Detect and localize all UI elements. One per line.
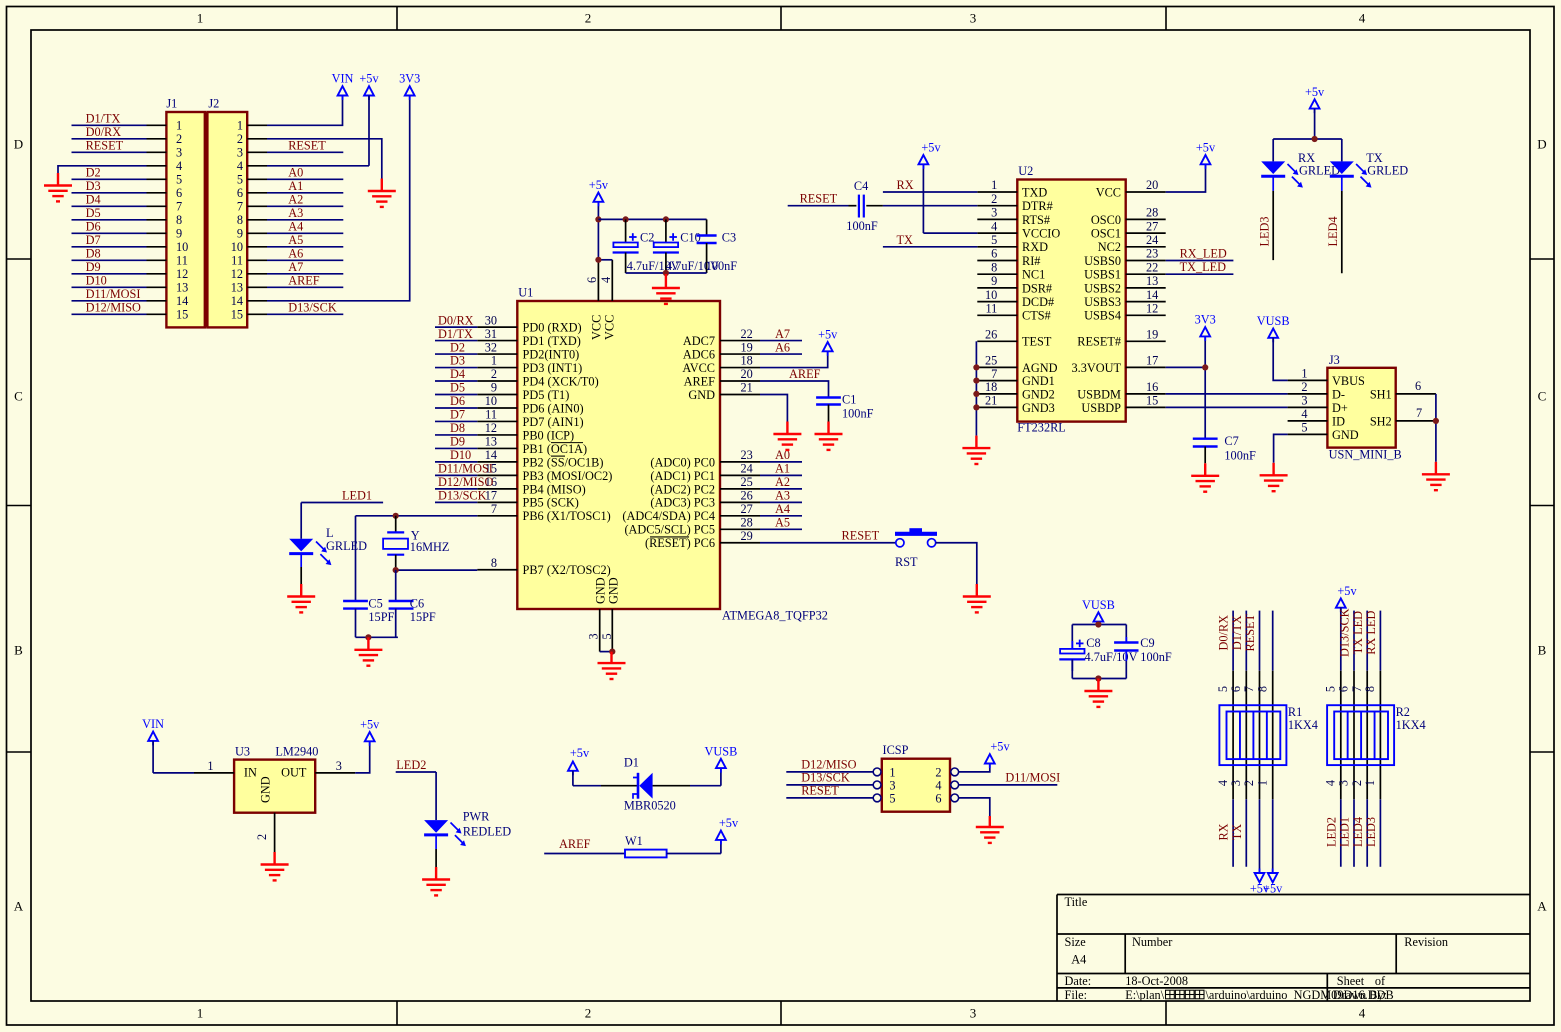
power port +5v (AVCC) xyxy=(827,351,829,356)
svg-text:9: 9 xyxy=(176,227,182,241)
svg-text:31: 31 xyxy=(485,327,497,341)
svg-text:3: 3 xyxy=(587,633,601,639)
wire J2 pin 12 net A7 xyxy=(247,273,267,275)
svg-text:2: 2 xyxy=(585,11,592,26)
wire U1 gnd join xyxy=(600,651,613,653)
wire J1 pin 5 net D2 xyxy=(147,178,167,180)
wire +5v to VCCIO xyxy=(922,164,924,233)
R2 wire pin 8 xyxy=(1363,611,1380,867)
capacitor C3 100nF xyxy=(697,219,738,273)
LED L GRLED (LED1) xyxy=(289,526,367,584)
svg-text:6: 6 xyxy=(585,277,599,283)
svg-text:3: 3 xyxy=(970,1006,977,1021)
wire J2 pin 7 net A2 xyxy=(247,205,267,207)
connector ICSP body xyxy=(882,759,950,812)
svg-text:+5v: +5v xyxy=(1196,141,1216,155)
wire USBDP to J3 xyxy=(1166,406,1288,408)
svg-text:(ADC5/SCL) PC5: (ADC5/SCL) PC5 xyxy=(624,523,715,537)
ICSP pins 5/6 xyxy=(873,791,958,805)
svg-text:J3: J3 xyxy=(1329,353,1340,367)
svg-text:+5v: +5v xyxy=(589,178,609,192)
title block texts xyxy=(1065,895,1449,1002)
svg-text:D5: D5 xyxy=(86,206,101,220)
svg-text:+5v: +5v xyxy=(818,328,838,342)
svg-text:OSC0: OSC0 xyxy=(1091,213,1121,227)
svg-text:22: 22 xyxy=(1146,260,1158,274)
wire J2 pin 4 xyxy=(247,165,267,167)
ICSP pins 1/2 xyxy=(873,765,958,779)
power port VIN xyxy=(342,96,344,101)
power port +5v (ICSP) xyxy=(989,764,991,769)
svg-text:A4: A4 xyxy=(775,502,790,516)
power port +5v above R2 xyxy=(1340,608,1342,613)
svg-text:J1: J1 xyxy=(166,97,177,111)
svg-text:3: 3 xyxy=(176,146,182,160)
U1 pin 7 PB6 (X1/TOSC1) xyxy=(477,502,610,523)
svg-text:GND3: GND3 xyxy=(1022,401,1055,415)
svg-text:13: 13 xyxy=(231,281,243,295)
wire +5v led rail xyxy=(1273,109,1342,139)
svg-text:100nF: 100nF xyxy=(842,406,874,420)
svg-text:OSC1: OSC1 xyxy=(1091,227,1121,241)
wire U2 ground bus xyxy=(975,341,977,435)
ground at U2 bus xyxy=(962,436,990,464)
U1 pin 25 (ADC2) PC2 xyxy=(650,475,802,496)
svg-text:RX_LED: RX_LED xyxy=(1180,247,1227,261)
U1 pin 14 PB2 (SS/OC1B) xyxy=(435,448,603,469)
J3 pin 5 GND xyxy=(1288,421,1359,442)
U2 pin 15 USBDP xyxy=(1081,394,1165,415)
power port +5v (U2) xyxy=(1205,164,1207,169)
svg-text:30: 30 xyxy=(485,313,497,327)
U2 pin 1 TXD xyxy=(977,178,1047,199)
svg-text:17: 17 xyxy=(1146,354,1158,368)
svg-text:USBS3: USBS3 xyxy=(1084,295,1121,309)
wire J2 pin 5 net A0 xyxy=(247,178,267,180)
svg-text:+5v: +5v xyxy=(990,740,1010,754)
svg-text:RX: RX xyxy=(1217,823,1231,840)
wire VUSB cap rail xyxy=(1072,622,1126,649)
svg-text:Number: Number xyxy=(1132,935,1172,949)
svg-text:7: 7 xyxy=(176,200,182,214)
U2 pin 13 USBS2 xyxy=(1084,274,1166,295)
svg-text:ATMEGA8_TQFP32: ATMEGA8_TQFP32 xyxy=(722,609,828,623)
svg-text:4: 4 xyxy=(1216,780,1230,786)
svg-text:VIN: VIN xyxy=(332,72,354,86)
wire J1 pin 11 net D8 xyxy=(147,259,167,261)
U1 pin 29 (RESET) PC6 xyxy=(645,529,760,550)
U2 pin 28 OSC0 xyxy=(1091,206,1166,227)
net label RX_LED xyxy=(1166,247,1234,261)
net label TX_LED xyxy=(1166,260,1234,274)
ground at RST xyxy=(963,584,991,612)
svg-text:2: 2 xyxy=(935,765,941,779)
svg-text:5: 5 xyxy=(1324,686,1338,692)
svg-text:LED1: LED1 xyxy=(342,488,372,502)
svg-text:4: 4 xyxy=(176,159,182,173)
U2 pin 24 NC2 xyxy=(1098,233,1166,254)
svg-text:AVCC: AVCC xyxy=(682,361,715,375)
svg-text:D6: D6 xyxy=(450,394,465,408)
U2 pin 10 DCD# xyxy=(977,288,1054,309)
svg-text:11: 11 xyxy=(176,254,188,268)
svg-text:C: C xyxy=(14,389,23,404)
svg-text:19: 19 xyxy=(1146,328,1158,342)
R1 wire pin 5 xyxy=(1216,611,1233,867)
svg-text:LED2: LED2 xyxy=(396,758,426,772)
wire J2 pin 9 net A4 xyxy=(247,232,267,234)
svg-text:15: 15 xyxy=(231,308,243,322)
svg-text:CTS#: CTS# xyxy=(1022,309,1051,323)
svg-text:7: 7 xyxy=(1350,686,1364,692)
wire ICSP pin6 to ground xyxy=(959,798,990,816)
svg-text:28: 28 xyxy=(741,516,753,530)
svg-text:D1/TX: D1/TX xyxy=(438,327,473,341)
svg-text:23: 23 xyxy=(741,448,753,462)
svg-text:REDLED: REDLED xyxy=(463,824,512,838)
ground below C8/C9 xyxy=(1084,679,1112,707)
svg-text:7: 7 xyxy=(1242,686,1256,692)
svg-text:USBS1: USBS1 xyxy=(1084,268,1121,282)
ground below LED2 xyxy=(422,867,450,895)
svg-text:9: 9 xyxy=(991,274,997,288)
svg-text:(ADC4/SDA) PC4: (ADC4/SDA) PC4 xyxy=(622,509,715,523)
svg-text:ADC7: ADC7 xyxy=(683,334,715,348)
svg-text:6: 6 xyxy=(935,791,941,805)
svg-text:25: 25 xyxy=(985,354,997,368)
svg-text:4: 4 xyxy=(1301,407,1307,421)
svg-text:MBR0520: MBR0520 xyxy=(624,799,676,813)
svg-text:LED1: LED1 xyxy=(1338,817,1352,847)
svg-text:A5: A5 xyxy=(288,233,303,247)
svg-text:8: 8 xyxy=(491,556,497,570)
svg-text:D12/MISO: D12/MISO xyxy=(801,758,856,772)
svg-text:DTR#: DTR# xyxy=(1022,199,1053,213)
ground at J3 GND xyxy=(1260,463,1288,491)
svg-text:U3: U3 xyxy=(235,744,250,758)
svg-text:GND: GND xyxy=(594,577,608,604)
resistor network R1 1KX4 body xyxy=(1219,705,1318,765)
power port 3V3 (U2) xyxy=(1204,336,1206,341)
svg-text:1: 1 xyxy=(1363,780,1377,786)
svg-text:10: 10 xyxy=(176,240,188,254)
svg-text:D10: D10 xyxy=(450,448,471,462)
power port +5v (U3) xyxy=(369,741,371,746)
svg-text:+5v: +5v xyxy=(570,746,590,760)
svg-text:D2: D2 xyxy=(86,166,101,180)
svg-text:USBS2: USBS2 xyxy=(1084,281,1121,295)
wire J1 pin 13 net D10 xyxy=(147,286,167,288)
svg-text:12: 12 xyxy=(1146,302,1158,316)
svg-text:Sheet: Sheet xyxy=(1337,974,1365,988)
svg-text:15PF: 15PF xyxy=(368,610,394,624)
svg-text:GND2: GND2 xyxy=(1022,387,1055,401)
wire C4 to U2 DTR# xyxy=(883,205,977,207)
wire J2 pin 13 net AREF xyxy=(247,286,267,288)
svg-text:3: 3 xyxy=(336,759,342,773)
svg-text:D0/RX: D0/RX xyxy=(438,313,474,327)
svg-text:13: 13 xyxy=(1146,274,1158,288)
wire J2 pin 3 net RESET xyxy=(247,151,267,153)
svg-text:D3: D3 xyxy=(86,179,101,193)
svg-text:10: 10 xyxy=(231,240,243,254)
U2 pin 6 RI# xyxy=(977,247,1040,268)
ground at ICSP xyxy=(976,816,1004,843)
svg-text:1: 1 xyxy=(207,759,213,773)
net label TX (U2) xyxy=(883,233,977,247)
U2 pin 16 USBDM xyxy=(1077,380,1165,401)
svg-text:4: 4 xyxy=(935,778,941,792)
wire J1 pin 15 net D12/MISO xyxy=(147,313,167,315)
svg-text:A7: A7 xyxy=(288,260,303,274)
svg-text:A1: A1 xyxy=(775,462,790,476)
wire J2 pin 15 net D13/SCK xyxy=(247,313,267,315)
svg-text:4: 4 xyxy=(1359,1006,1366,1021)
svg-text:GND: GND xyxy=(258,776,272,803)
svg-text:D13/SCK: D13/SCK xyxy=(1338,608,1352,657)
U1 pin 30 PD0 (RXD) xyxy=(435,313,582,334)
wire J1 pin 10 net D7 xyxy=(147,246,167,248)
svg-text:GRLED: GRLED xyxy=(326,539,367,553)
svg-text:A2: A2 xyxy=(288,193,303,207)
svg-text:23: 23 xyxy=(1146,247,1158,261)
svg-text:32: 32 xyxy=(485,340,497,354)
wire J2 pin 11 net A6 xyxy=(247,259,267,261)
LED4 TX GRLED xyxy=(1330,139,1409,273)
svg-text:RX: RX xyxy=(897,178,914,192)
svg-text:C4: C4 xyxy=(854,179,868,193)
svg-text:21: 21 xyxy=(741,381,753,395)
svg-text:D3: D3 xyxy=(450,354,465,368)
wire LED2 xyxy=(396,772,436,820)
svg-text:GRLED: GRLED xyxy=(1367,164,1408,178)
U2 pin 27 OSC1 xyxy=(1091,219,1166,240)
U1 pin 10 PD6 (AIN0) xyxy=(435,394,584,415)
svg-text:100nF: 100nF xyxy=(1224,449,1256,463)
wire ICSP RESET xyxy=(786,784,873,798)
svg-text:6: 6 xyxy=(1229,686,1243,692)
wire W1 to +5v xyxy=(667,840,721,854)
svg-text:A4: A4 xyxy=(288,220,303,234)
svg-text:5: 5 xyxy=(991,233,997,247)
U1 pin 19 ADC6 xyxy=(683,340,802,361)
svg-text:W1: W1 xyxy=(625,834,643,848)
ground at U3 xyxy=(261,852,289,880)
wire J1 pin4 to ground xyxy=(58,166,72,173)
svg-text:14: 14 xyxy=(176,294,188,308)
svg-text:AREF: AREF xyxy=(288,274,320,288)
svg-text:7: 7 xyxy=(1416,406,1422,420)
svg-text:11: 11 xyxy=(231,254,243,268)
svg-text:FT232RL: FT232RL xyxy=(1017,421,1066,435)
svg-text:RESET: RESET xyxy=(288,139,326,153)
svg-text:2: 2 xyxy=(1301,380,1307,394)
ground below C2/C10/C3 xyxy=(652,274,680,304)
wire ICSP D12/MISO xyxy=(786,758,873,772)
svg-text:1: 1 xyxy=(1255,780,1269,786)
capacitor C9 100nF xyxy=(1114,636,1172,679)
svg-text:USBDM: USBDM xyxy=(1077,387,1121,401)
wire VIN to U3 xyxy=(153,741,194,773)
svg-text:Size: Size xyxy=(1065,935,1087,949)
wire J1 pin 7 net D4 xyxy=(147,205,167,207)
svg-text:100nF: 100nF xyxy=(846,219,878,233)
svg-text:C8: C8 xyxy=(1086,636,1100,650)
svg-text:PB7 (X2/TOSC2): PB7 (X2/TOSC2) xyxy=(523,563,611,577)
svg-text:15PF: 15PF xyxy=(410,610,436,624)
wire J1 pin 4 xyxy=(147,165,167,167)
svg-text:ICSP: ICSP xyxy=(883,743,909,757)
svg-text:NC2: NC2 xyxy=(1098,240,1121,254)
U2 pin 4 VCCIO xyxy=(977,219,1060,240)
svg-text:B: B xyxy=(1538,643,1547,658)
svg-text:6: 6 xyxy=(176,186,182,200)
svg-text:AREF: AREF xyxy=(559,837,591,851)
svg-text:11: 11 xyxy=(485,408,497,422)
svg-text:+5v: +5v xyxy=(921,141,941,155)
U2 pin 8 NC1 xyxy=(977,260,1045,281)
power port VUSB (D1) xyxy=(720,768,722,773)
svg-text:D8: D8 xyxy=(450,421,465,435)
svg-text:C3: C3 xyxy=(722,230,736,244)
U2 pin 2 DTR# xyxy=(977,192,1052,213)
svg-text:RESET: RESET xyxy=(86,139,124,153)
svg-text:PD0 (RXD): PD0 (RXD) xyxy=(523,321,582,335)
LED3 RX GRLED xyxy=(1261,139,1340,260)
svg-text:1: 1 xyxy=(491,354,497,368)
svg-text:A0: A0 xyxy=(288,166,303,180)
svg-text:3V3: 3V3 xyxy=(1195,313,1216,327)
wire +5v to U1 VCC xyxy=(598,202,612,260)
svg-text:TXD: TXD xyxy=(1022,185,1047,199)
svg-text:A3: A3 xyxy=(288,206,303,220)
wire PB6 to crystal xyxy=(356,516,478,601)
wire J2 pin 8 net A3 xyxy=(247,219,267,221)
wire J2 pin 1 xyxy=(247,124,267,126)
connector J1 xyxy=(166,112,205,327)
U1 pin 18 AVCC xyxy=(682,354,760,375)
svg-text:C5: C5 xyxy=(368,596,382,610)
IC U1 ATMEGA8_TQFP32 body xyxy=(517,301,720,609)
svg-text:TX_LED: TX_LED xyxy=(1180,260,1227,274)
wire ICSP pin4 D11/MOSI xyxy=(959,771,1061,785)
svg-text:PB6 (X1/TOSC1): PB6 (X1/TOSC1) xyxy=(523,509,611,523)
svg-text:26: 26 xyxy=(985,328,997,342)
svg-text:+5v: +5v xyxy=(719,816,739,830)
svg-text:+5v: +5v xyxy=(1263,882,1283,896)
wire J1 pin 9 net D6 xyxy=(147,232,167,234)
svg-text:PB5 (SCK): PB5 (SCK) xyxy=(523,496,579,510)
svg-text:USBS0: USBS0 xyxy=(1084,254,1121,268)
svg-text:NC1: NC1 xyxy=(1022,268,1045,282)
svg-text:PD3 (INT1): PD3 (INT1) xyxy=(523,361,583,375)
svg-text:24: 24 xyxy=(1146,233,1158,247)
border row ticks xyxy=(7,259,1555,752)
svg-text:2: 2 xyxy=(255,834,269,840)
svg-text:12: 12 xyxy=(176,267,188,281)
connector J3 USN_MINI_B body xyxy=(1327,368,1395,448)
svg-text:Title: Title xyxy=(1065,895,1088,909)
wire J1 pin 14 net D11/MOSI xyxy=(147,300,167,302)
U1 pin 1 PD3 (INT1) xyxy=(435,354,582,375)
U2 pin 3 RTS# xyxy=(977,206,1050,227)
wire J1 pin 1 net D1/TX xyxy=(147,124,167,126)
svg-text:29: 29 xyxy=(741,529,753,543)
svg-text:VCCIO: VCCIO xyxy=(1022,227,1060,241)
svg-text:D1: D1 xyxy=(624,756,639,770)
U2 pin 14 USBS3 xyxy=(1084,288,1166,309)
svg-text:14: 14 xyxy=(1146,288,1158,302)
svg-text:(ADC2) PC2: (ADC2) PC2 xyxy=(650,482,715,496)
svg-text:D11/MOSI: D11/MOSI xyxy=(1005,771,1060,785)
net label RESET at C4 xyxy=(788,192,849,206)
U1 pin 2 PD4 (XCK/T0) xyxy=(435,367,599,388)
svg-text:15: 15 xyxy=(176,308,188,322)
svg-text:VUSB: VUSB xyxy=(1082,598,1115,612)
J3 pin 4 ID xyxy=(1288,407,1345,428)
U2 pin 21 GND3 xyxy=(977,394,1054,415)
svg-text:C9: C9 xyxy=(1140,636,1154,650)
net label RX (U2) xyxy=(883,178,977,192)
svg-text:14: 14 xyxy=(231,294,243,308)
svg-text:17: 17 xyxy=(485,489,497,503)
svg-text:GND: GND xyxy=(607,577,621,604)
wire J1 pin 3 net RESET xyxy=(147,151,167,153)
svg-text:28: 28 xyxy=(1146,206,1158,220)
svg-text:PD2(INT0): PD2(INT0) xyxy=(523,347,580,361)
svg-text:GND: GND xyxy=(688,388,715,402)
power port VIN (U3) xyxy=(152,741,154,746)
wire 3.3VOUT to 3V3 and C7 xyxy=(1166,336,1206,438)
svg-text:12: 12 xyxy=(485,421,497,435)
svg-text:3: 3 xyxy=(889,778,895,792)
U2 pin 25 AGND xyxy=(977,354,1057,375)
wire +5v decoupling rail xyxy=(598,218,706,220)
U3 pin 1 xyxy=(194,759,234,773)
svg-text:SH2: SH2 xyxy=(1370,414,1392,428)
J3 pin 3 D+ xyxy=(1288,394,1348,415)
wire J1 pin 6 net D3 xyxy=(147,192,167,194)
svg-text:R1: R1 xyxy=(1288,705,1302,719)
power port +5v (LED3/4) xyxy=(1314,109,1316,114)
wire U1 GND pin21 xyxy=(760,395,787,422)
U1 pin 23 (ADC0) PC0 xyxy=(650,448,802,469)
svg-text:1: 1 xyxy=(197,11,204,26)
U2 pin 22 USBS1 xyxy=(1084,260,1166,281)
svg-text:2: 2 xyxy=(176,132,182,146)
U2 SH pins xyxy=(1370,379,1436,428)
svg-text:24: 24 xyxy=(741,462,753,476)
U2 pin 23 USBS0 xyxy=(1084,247,1166,268)
svg-text:USBS4: USBS4 xyxy=(1084,309,1121,323)
power port VUSB (J3) xyxy=(1272,338,1274,343)
svg-text:2: 2 xyxy=(491,367,497,381)
svg-text:(RESET) PC6: (RESET) PC6 xyxy=(645,536,715,550)
U2 pin 12 USBS4 xyxy=(1084,302,1166,323)
svg-text:D4: D4 xyxy=(450,367,465,381)
svg-text:+5v: +5v xyxy=(1337,584,1357,598)
svg-text:RESET: RESET xyxy=(1243,613,1257,651)
U1 pin 24 (ADC1) PC1 xyxy=(650,462,802,483)
R2 wire pin 6 xyxy=(1337,608,1354,866)
U1 pin 27 (ADC4/SDA) PC4 xyxy=(622,502,802,523)
title block frame xyxy=(1057,895,1530,1002)
svg-text:4: 4 xyxy=(1324,780,1338,786)
ground at J2 pin2 xyxy=(368,179,396,207)
junction dots U1 vcc xyxy=(595,216,601,222)
svg-text:File:: File: xyxy=(1065,988,1088,1002)
svg-text:J2: J2 xyxy=(208,97,219,111)
